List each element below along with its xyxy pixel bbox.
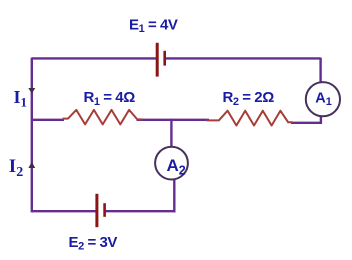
- wire bottom-right segment: [105, 210, 175, 212]
- battery E2 short plate: [103, 203, 106, 217]
- wire left vertical: [31, 58, 33, 213]
- battery E1 short plate: [163, 51, 166, 66]
- wire top-left segment: [32, 57, 157, 59]
- battery E2 long plate: [95, 194, 98, 227]
- svg-text:R2 = 2Ω: R2 = 2Ω: [223, 89, 275, 108]
- current arrow I2 (up): [28, 162, 35, 168]
- battery E1 long plate: [156, 43, 159, 77]
- svg-text:E2 = 3V: E2 = 3V: [69, 234, 118, 253]
- ammeter A2 circle: [155, 147, 188, 180]
- ammeter A1 circle: [306, 82, 340, 116]
- current arrow I1 (down): [28, 88, 35, 94]
- wire right lead to A1 stub: [291, 122, 321, 124]
- svg-text:E1 = 4V: E1 = 4V: [129, 17, 178, 36]
- wire middle branch R1 to R2: [137, 119, 210, 121]
- svg-text:I2: I2: [9, 156, 23, 180]
- wire right vertical to A1: [319, 58, 321, 84]
- resistor R2 zigzag: [207, 111, 293, 126]
- wire A2 top stub: [170, 119, 172, 148]
- wire bottom-left segment: [32, 210, 96, 212]
- wire middle branch left of R1: [32, 119, 64, 121]
- wire top-right segment: [165, 57, 321, 59]
- resistor R1 zigzag: [63, 110, 143, 125]
- svg-text:I1: I1: [14, 87, 28, 110]
- wire A1 bottom stub: [320, 116, 322, 124]
- svg-text:R1 = 4Ω: R1 = 4Ω: [84, 89, 136, 108]
- wire A2 bottom stub: [173, 180, 175, 213]
